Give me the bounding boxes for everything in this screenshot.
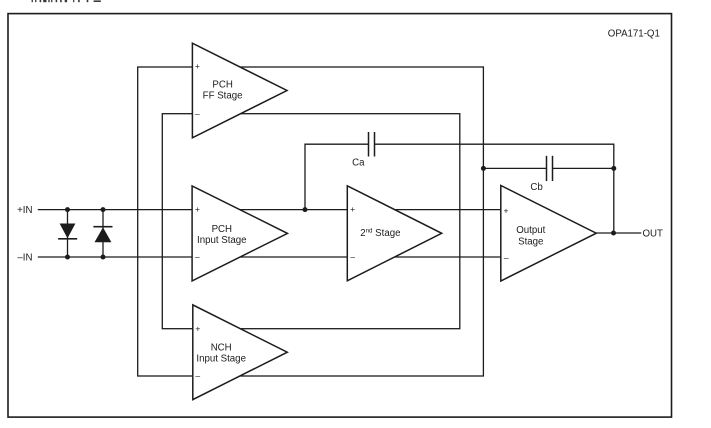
svg-text:–: – bbox=[195, 252, 200, 262]
svg-text:+: + bbox=[195, 323, 200, 333]
svg-text:+IN: +IN bbox=[17, 205, 32, 216]
svg-text:FF Stage: FF Stage bbox=[203, 91, 243, 102]
svg-text:PCH: PCH bbox=[212, 224, 232, 235]
svg-text:Input Stage: Input Stage bbox=[196, 354, 246, 365]
svg-text:Stage: Stage bbox=[518, 237, 543, 248]
svg-text:–: – bbox=[504, 253, 509, 263]
svg-text:Cb: Cb bbox=[530, 182, 542, 193]
svg-text:–: – bbox=[195, 371, 200, 381]
svg-text:OPA171-Q1: OPA171-Q1 bbox=[608, 28, 660, 39]
svg-text:+: + bbox=[195, 204, 200, 214]
svg-text:+: + bbox=[195, 61, 200, 71]
svg-text:+: + bbox=[350, 204, 355, 214]
svg-text:Ca: Ca bbox=[352, 157, 365, 168]
svg-text:–IN: –IN bbox=[17, 252, 32, 263]
svg-text:–: – bbox=[350, 252, 355, 262]
svg-text:OUT: OUT bbox=[643, 229, 664, 240]
svg-text:PCH: PCH bbox=[212, 80, 232, 91]
svg-text:+: + bbox=[504, 206, 509, 216]
svg-text:Output: Output bbox=[516, 225, 545, 236]
svg-text:NCH: NCH bbox=[211, 343, 232, 354]
svg-text:Input Stage: Input Stage bbox=[197, 235, 247, 246]
svg-text:–: – bbox=[195, 108, 200, 118]
